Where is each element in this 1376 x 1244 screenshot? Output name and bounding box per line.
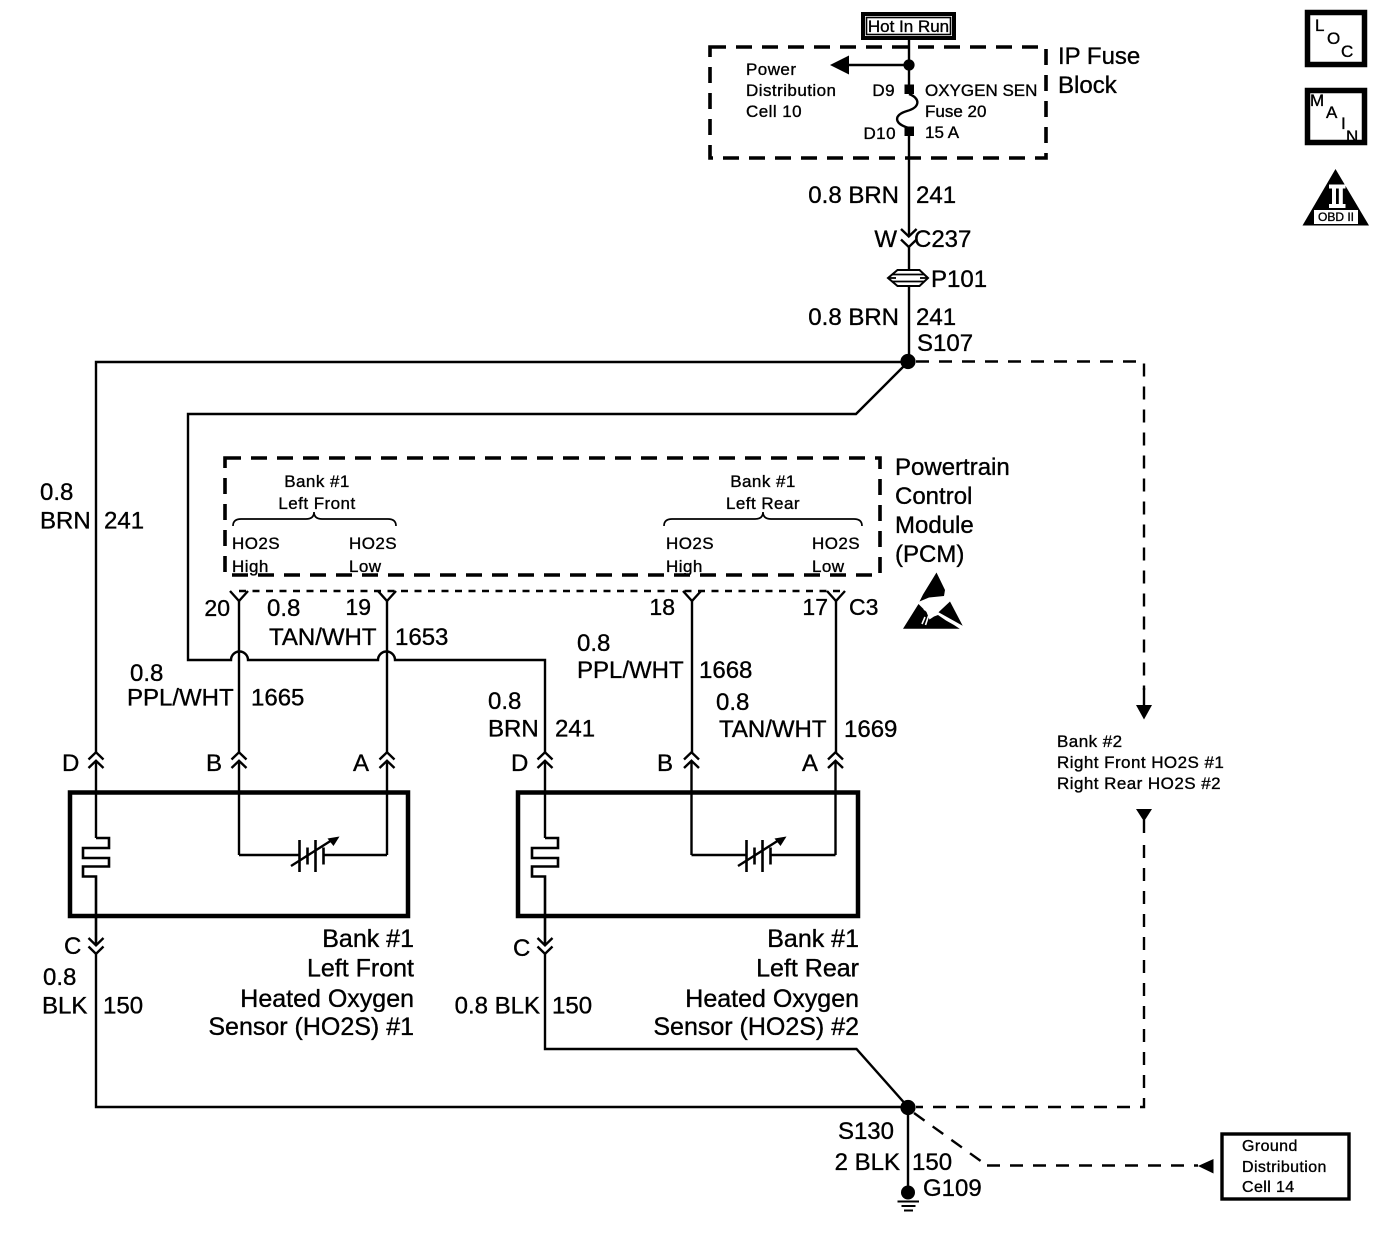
svg-text:P101: P101 <box>931 266 987 293</box>
HO2S1 box <box>70 793 408 917</box>
svg-text:0.8 BLK: 0.8 BLK <box>455 993 540 1020</box>
svg-text:TAN/WHT: TAN/WHT <box>719 716 827 743</box>
svg-text:241: 241 <box>555 716 595 743</box>
svg-text:OXYGEN SEN: OXYGEN SEN <box>925 81 1037 100</box>
OBD II symbol <box>1303 169 1370 226</box>
wire C237 to P101 <box>908 247 910 270</box>
Hot In Run box <box>863 14 954 38</box>
svg-text:D10: D10 <box>863 124 896 143</box>
ESD symbol <box>903 573 963 629</box>
svg-text:Hot In Run: Hot In Run <box>868 17 949 36</box>
svg-text:Cell 10: Cell 10 <box>746 102 802 121</box>
pin 20 terminal <box>230 591 248 601</box>
svg-text:241: 241 <box>916 182 956 209</box>
wire HO2S1 C to S130 <box>96 954 901 1107</box>
svg-text:0.8: 0.8 <box>488 688 521 715</box>
svg-text:Bank #1: Bank #1 <box>322 925 414 953</box>
svg-text:HO2S: HO2S <box>349 534 397 553</box>
svg-text:Bank #1: Bank #1 <box>284 472 350 491</box>
svg-text:Bank #2: Bank #2 <box>1057 732 1123 751</box>
svg-text:Left Rear: Left Rear <box>726 494 800 513</box>
Bank #2 note <box>1057 732 1224 793</box>
heater element HO2S1 <box>83 838 109 945</box>
splice S130 <box>900 1100 915 1115</box>
svg-text:150: 150 <box>552 993 592 1020</box>
svg-text:Block: Block <box>1058 72 1118 99</box>
svg-text:Heated Oxygen: Heated Oxygen <box>685 985 859 1013</box>
dashed wire down to S130 <box>916 845 1144 1107</box>
svg-text:C237: C237 <box>914 226 971 253</box>
wire P101 to S107 <box>908 286 910 362</box>
ground G109 <box>898 1175 982 1211</box>
svg-text:S107: S107 <box>917 330 973 357</box>
HO2S1 terminal B chevrons <box>206 750 247 777</box>
svg-text:D: D <box>511 750 528 777</box>
connector C3 face line (fine dashed) <box>239 590 845 592</box>
Bank #1 Left Rear group label <box>726 472 800 513</box>
svg-text:Left Front: Left Front <box>307 955 414 983</box>
svg-text:0.8 BRN: 0.8 BRN <box>808 304 899 331</box>
connector W C237 <box>874 226 971 253</box>
MAIN page symbol <box>1308 91 1365 147</box>
svg-text:HO2S: HO2S <box>666 534 714 553</box>
svg-text:Fuse 20: Fuse 20 <box>925 102 986 121</box>
svg-text:Distribution: Distribution <box>1242 1159 1327 1176</box>
svg-text:0.8: 0.8 <box>716 689 749 716</box>
svg-text:19: 19 <box>345 594 371 620</box>
pin 18 terminal <box>683 591 701 601</box>
svg-text:18: 18 <box>649 594 675 620</box>
fuse 20 OXYGEN SEN element <box>897 94 917 128</box>
svg-text:Module: Module <box>895 512 974 539</box>
svg-text:W: W <box>874 226 897 253</box>
power distribution arrow <box>830 56 909 75</box>
svg-text:1653: 1653 <box>395 624 448 651</box>
HO2S1 terminal A chevrons <box>353 750 395 777</box>
svg-text:Left Front: Left Front <box>278 494 355 513</box>
svg-text:PPL/WHT: PPL/WHT <box>577 657 684 684</box>
svg-text:A: A <box>802 750 818 777</box>
wire S107 down-left to HO2S2 pin D (with hops) <box>188 362 908 753</box>
HO2S2 terminal A chevrons <box>802 750 843 777</box>
sensor cell element HO2S1 <box>239 837 387 873</box>
dashed wire S107 to Bank #2 HO2S feed <box>916 362 1144 691</box>
svg-text:Ground: Ground <box>1242 1138 1298 1155</box>
svg-text:0.8: 0.8 <box>43 964 76 991</box>
svg-text:2 BLK: 2 BLK <box>835 1149 900 1176</box>
svg-text:OBD II: OBD II <box>1318 210 1354 224</box>
wire Hot In Run to D9 <box>908 40 910 85</box>
svg-text:A: A <box>353 750 369 777</box>
svg-text:17: 17 <box>802 594 828 620</box>
dashed wire S130 to Ground Distribution <box>914 1113 1214 1174</box>
wire pin 19 to HO2S1 pin A <box>386 601 388 753</box>
svg-text:BLK: BLK <box>42 993 87 1020</box>
heater element HO2S2 <box>532 838 558 945</box>
svg-text:Control: Control <box>895 483 972 510</box>
svg-text:Bank #1: Bank #1 <box>730 472 796 491</box>
HO2S2 terminal C chevrons <box>513 935 553 962</box>
svg-text:High: High <box>232 557 269 576</box>
svg-text:C: C <box>513 935 530 962</box>
pin 17 terminal <box>827 591 845 601</box>
svg-text:Powertrain: Powertrain <box>895 454 1010 481</box>
svg-text:1669: 1669 <box>844 716 897 743</box>
terminal D9 <box>905 85 915 95</box>
svg-text:1668: 1668 <box>699 657 752 684</box>
HO2S2 name <box>653 925 859 1041</box>
svg-text:D9: D9 <box>872 81 895 100</box>
svg-text:0.8: 0.8 <box>267 595 300 622</box>
Bank #1 Left Front group label <box>278 472 355 513</box>
HO2S1 terminal C chevrons <box>64 933 104 960</box>
svg-text:Right Front HO2S #1: Right Front HO2S #1 <box>1057 753 1224 772</box>
svg-text:High: High <box>666 557 703 576</box>
svg-text:Cell 14: Cell 14 <box>1242 1179 1295 1196</box>
junction dot at fuse feed <box>903 59 914 70</box>
svg-text:PPL/WHT: PPL/WHT <box>127 685 234 712</box>
HO2S2 box <box>518 793 858 917</box>
svg-text:C: C <box>64 933 81 960</box>
sensor cell element HO2S2 <box>692 837 836 873</box>
svg-text:Bank #1: Bank #1 <box>767 925 859 953</box>
svg-text:0.8: 0.8 <box>40 479 73 506</box>
svg-text:IP Fuse: IP Fuse <box>1058 43 1140 70</box>
svg-text:15 A: 15 A <box>925 123 960 142</box>
svg-text:S130: S130 <box>838 1118 894 1145</box>
wire stubs into HO2S1 <box>95 761 97 838</box>
svg-text:M: M <box>1310 91 1325 110</box>
wire stubs into HO2S2 <box>544 761 546 838</box>
HO2S1 terminal D chevrons <box>62 750 104 777</box>
svg-text:241: 241 <box>916 304 956 331</box>
svg-text:150: 150 <box>103 993 143 1020</box>
pin 19 terminal <box>378 591 396 601</box>
wire pin 17 to HO2S2 pin A <box>835 601 837 753</box>
wire S107 left and down to HO2S1 pin D <box>96 362 901 753</box>
LOC page symbol <box>1308 13 1365 65</box>
svg-text:Sensor (HO2S) #2: Sensor (HO2S) #2 <box>653 1013 859 1041</box>
svg-text:Left Rear: Left Rear <box>756 955 859 983</box>
svg-text:TAN/WHT: TAN/WHT <box>269 624 377 651</box>
wire pin 20 to HO2S1 pin B <box>238 601 240 753</box>
wire D10 to C237 <box>908 136 910 236</box>
svg-text:0.8: 0.8 <box>130 660 163 687</box>
wire HO2S2 C to S130 <box>545 954 908 1107</box>
svg-text:Low: Low <box>349 557 382 576</box>
svg-text:0.8 BRN: 0.8 BRN <box>808 182 899 209</box>
svg-text:BRN: BRN <box>40 508 91 535</box>
svg-text:150: 150 <box>912 1149 952 1176</box>
svg-text:G109: G109 <box>923 1175 982 1202</box>
wire S130 to G109 <box>907 1115 909 1188</box>
svg-text:D: D <box>62 750 79 777</box>
svg-text:241: 241 <box>104 508 144 535</box>
svg-text:O: O <box>1327 29 1341 48</box>
svg-text:Sensor (HO2S) #1: Sensor (HO2S) #1 <box>208 1013 414 1041</box>
svg-text:20: 20 <box>204 595 230 621</box>
svg-text:Heated Oxygen: Heated Oxygen <box>240 985 414 1013</box>
HO2S2 terminal D chevrons <box>511 750 553 777</box>
wire pin 18 to HO2S2 pin B <box>691 601 693 753</box>
svg-text:HO2S: HO2S <box>812 534 860 553</box>
HO2S2 terminal B chevrons <box>657 750 699 777</box>
svg-text:Distribution: Distribution <box>746 81 836 100</box>
PCM dashed box <box>225 458 880 575</box>
svg-text:HO2S: HO2S <box>232 534 280 553</box>
pass-through grommet P101 <box>888 266 987 293</box>
svg-text:BRN: BRN <box>488 716 539 743</box>
svg-text:L: L <box>1315 16 1325 35</box>
svg-text:(PCM): (PCM) <box>895 541 964 568</box>
svg-text:A: A <box>1326 103 1338 122</box>
svg-text:Right Rear HO2S #2: Right Rear HO2S #2 <box>1057 774 1221 793</box>
Ground Distribution Cell 14 box <box>1222 1134 1349 1199</box>
svg-text:B: B <box>657 750 673 777</box>
svg-text:C: C <box>1341 42 1354 61</box>
IP Fuse Block dashed box <box>710 47 1046 158</box>
arrow down into Bank #2 note <box>1136 688 1152 720</box>
brace left rear <box>664 512 862 526</box>
svg-text:Power: Power <box>746 60 796 79</box>
svg-text:B: B <box>206 750 222 777</box>
svg-text:N: N <box>1346 127 1359 146</box>
terminal D10 <box>905 127 915 137</box>
brace left front <box>233 512 396 526</box>
svg-text:C3: C3 <box>849 594 878 620</box>
svg-text:1665: 1665 <box>251 685 304 712</box>
svg-text:Low: Low <box>812 557 845 576</box>
svg-text:0.8: 0.8 <box>577 630 610 657</box>
arrow resume below Bank #2 note <box>1136 809 1152 833</box>
HO2S1 name <box>208 925 414 1041</box>
